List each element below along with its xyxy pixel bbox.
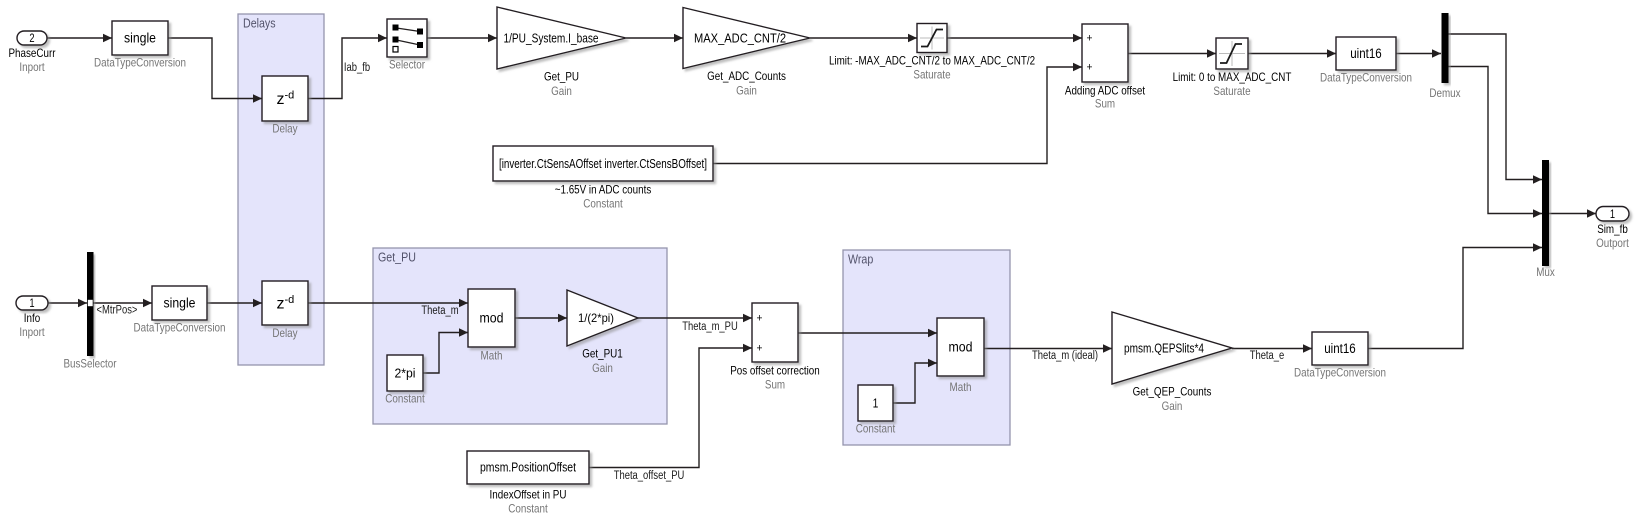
demux Demux	[1429, 13, 1460, 100]
outport 1 Sim_fb	[1596, 207, 1629, 251]
wire DataTypeConversion to Delay	[168, 38, 262, 103]
svg-text:Constant: Constant	[583, 197, 623, 211]
svg-text:+: +	[1087, 62, 1093, 74]
svg-text:DataTypeConversion: DataTypeConversion	[94, 56, 186, 70]
svg-text:uint16: uint16	[1324, 341, 1356, 356]
svg-text:+: +	[1087, 33, 1093, 45]
svg-text:Limit: -MAX_ADC_CNT/2 to MAX_A: Limit: -MAX_ADC_CNT/2 to MAX_ADC_CNT/2	[829, 54, 1035, 68]
inport 2 PhaseCurr	[9, 31, 56, 74]
svg-text:<MtrPos>: <MtrPos>	[97, 305, 138, 317]
wire 2*pi Constant to mod second input	[423, 328, 468, 373]
svg-text:Theta_m_PU: Theta_m_PU	[682, 321, 738, 333]
svg-text:Sim_fb: Sim_fb	[1597, 222, 1628, 236]
svg-text:Get_ADC_Counts: Get_ADC_Counts	[707, 69, 786, 83]
sum block Adding ADC offset	[1065, 24, 1146, 111]
svg-text:single: single	[164, 296, 196, 311]
svg-text:pmsm.QEPSlits*4: pmsm.QEPSlits*4	[1124, 341, 1204, 355]
svg-text:mod: mod	[480, 311, 504, 326]
wire BusSelector to DataTypeConversion1, signal MtrPos	[94, 299, 153, 317]
svg-text:2*pi: 2*pi	[395, 366, 416, 380]
data type conversion block single	[94, 21, 186, 70]
delay block Delay (bottom) z^-d	[262, 281, 308, 340]
svg-text:Theta_e: Theta_e	[1250, 350, 1285, 362]
mux Mux	[1536, 160, 1555, 279]
wire uint16 to Demux	[1396, 49, 1441, 57]
svg-text:BusSelector: BusSelector	[63, 357, 116, 371]
svg-text:Get_QEP_Counts: Get_QEP_Counts	[1133, 385, 1212, 399]
data type conversion uint16 (bottom)	[1294, 332, 1386, 380]
inport 1 Info	[16, 296, 48, 339]
wire uint16_2 to Mux in3	[1368, 243, 1542, 348]
svg-text:Math: Math	[950, 380, 972, 394]
svg-text:single: single	[124, 31, 156, 46]
wire Pos offset correction to Wrap mod	[798, 329, 937, 337]
data type conversion uint16 (top)	[1320, 37, 1412, 85]
svg-text:DataTypeConversion: DataTypeConversion	[1320, 71, 1412, 85]
svg-text:Theta_offset_PU: Theta_offset_PU	[614, 470, 685, 482]
bus selector BusSelector	[63, 252, 116, 371]
area Wrap	[843, 250, 1010, 445]
svg-text:Delay: Delay	[272, 122, 297, 136]
svg-text:Gain: Gain	[736, 84, 757, 98]
svg-text:pmsm.PositionOffset: pmsm.PositionOffset	[480, 460, 576, 475]
svg-text:+: +	[757, 343, 763, 355]
wire Get_PU1 to Pos offset correction, signal Theta_m_PU	[638, 314, 752, 333]
svg-text:Info: Info	[24, 311, 41, 325]
svg-text:Get_PU: Get_PU	[544, 70, 579, 84]
selector block Selector	[387, 19, 427, 72]
svg-text:Constant: Constant	[856, 422, 896, 436]
svg-text:Theta_m (ideal): Theta_m (ideal)	[1032, 350, 1098, 362]
wire Saturate to Sum	[947, 34, 1082, 42]
wire Sum to Saturate1	[1128, 49, 1216, 57]
svg-text:Inport: Inport	[19, 60, 45, 74]
svg-text:Adding ADC offset: Adding ADC offset	[1065, 84, 1146, 98]
svg-text:Gain: Gain	[592, 361, 613, 375]
svg-text:IndexOffset in PU: IndexOffset in PU	[490, 488, 567, 502]
math block mod (Get_PU)	[468, 289, 515, 363]
constant block ~1.65V in ADC counts	[493, 146, 713, 211]
gain Get_ADC_Counts MAX_ADC_CNT/2	[683, 8, 810, 98]
wire Demux out1 to Mux in1	[1449, 34, 1543, 184]
wire Delay to Selector, signal Iab_fb	[308, 34, 387, 99]
svg-text:1: 1	[29, 298, 34, 310]
gain Get_PU 1/PU_System.I_base	[497, 7, 626, 98]
svg-text:uint16: uint16	[1350, 46, 1382, 61]
wire Saturate1 to uint16	[1248, 49, 1336, 57]
saturate block Saturate1	[1173, 38, 1292, 98]
svg-text:Demux: Demux	[1429, 86, 1460, 100]
constant 1	[856, 385, 896, 436]
area Get_PU	[373, 248, 667, 424]
gain Get_PU1 1/(2*pi)	[567, 290, 638, 375]
svg-text:Delay: Delay	[272, 326, 297, 340]
wire Inport1 to BusSelector	[48, 299, 87, 307]
wire IndexOffset constant to Sum, signal Theta_offset_PU	[589, 344, 752, 482]
svg-text:Wrap: Wrap	[848, 252, 873, 267]
svg-text:Limit: 0 to MAX_ADC_CNT: Limit: 0 to MAX_ADC_CNT	[1173, 70, 1292, 84]
svg-text:1: 1	[873, 396, 879, 410]
svg-text:2: 2	[29, 33, 34, 45]
delay block Delay (top) z^-d	[262, 76, 308, 136]
svg-text:Iab_fb: Iab_fb	[344, 62, 370, 74]
svg-text:Theta_m: Theta_m	[421, 305, 458, 317]
svg-text:Delays: Delays	[243, 16, 276, 31]
wire Wrap mod to Get_QEP_Counts, signal Theta_m (ideal)	[984, 344, 1112, 362]
svg-text:Outport: Outport	[1596, 236, 1629, 250]
svg-text:PhaseCurr: PhaseCurr	[9, 46, 56, 60]
svg-text:Mux: Mux	[1536, 265, 1555, 279]
svg-text:[inverter.CtSensAOffset invert: [inverter.CtSensAOffset inverter.CtSensB…	[499, 156, 707, 171]
wire DataTypeConversion1 to Delay1	[207, 299, 262, 307]
svg-text:1/PU_System.I_base: 1/PU_System.I_base	[504, 31, 599, 45]
wire Demux out2 to Mux in2	[1449, 67, 1543, 218]
svg-text:Selector: Selector	[389, 58, 425, 72]
wire Inport2 to DataTypeConversion	[47, 34, 112, 42]
wire Get_QEP_Counts to uint16_2, signal Theta_e	[1232, 344, 1312, 362]
wire mod to Get_PU1 gain	[515, 314, 567, 322]
svg-text:1: 1	[1610, 209, 1615, 221]
svg-text:Pos offset correction: Pos offset correction	[730, 364, 820, 378]
svg-text:+: +	[757, 313, 763, 325]
wire Mux to Outport	[1549, 209, 1596, 217]
svg-text:Sum: Sum	[1095, 97, 1115, 111]
wire Delay1 to mod Math, signal Theta_m	[308, 299, 468, 317]
svg-text:MAX_ADC_CNT/2: MAX_ADC_CNT/2	[694, 31, 786, 45]
sum block Pos offset correction	[730, 303, 820, 392]
svg-text:DataTypeConversion: DataTypeConversion	[134, 321, 226, 335]
svg-text:Constant: Constant	[385, 392, 425, 406]
constant block pmsm.PositionOffset / IndexOffset in PU	[467, 451, 589, 516]
svg-text:Inport: Inport	[19, 325, 45, 339]
wire Get_ADC_Counts to Saturate	[810, 34, 917, 42]
svg-text:1/(2*pi): 1/(2*pi)	[578, 311, 614, 325]
svg-text:Constant: Constant	[508, 502, 548, 516]
wire Get_PU to Get_ADC_Counts	[626, 34, 683, 42]
math block mod (Wrap)	[937, 318, 984, 394]
data type conversion single (bottom)	[134, 286, 226, 335]
svg-text:Math: Math	[481, 349, 503, 363]
saturate block Saturate (top)	[829, 24, 1035, 82]
svg-text:~1.65V in ADC counts: ~1.65V in ADC counts	[555, 183, 652, 197]
wire Constant 1 to Wrap mod second input	[893, 359, 937, 403]
svg-text:Gain: Gain	[551, 84, 572, 98]
svg-text:mod: mod	[949, 340, 973, 355]
constant 2*pi	[385, 355, 425, 406]
area Delays	[238, 14, 324, 365]
svg-text:Saturate: Saturate	[913, 68, 950, 82]
svg-text:Saturate: Saturate	[1213, 84, 1250, 98]
svg-text:DataTypeConversion: DataTypeConversion	[1294, 366, 1386, 380]
wire Constant to Sum second input	[713, 63, 1082, 164]
gain Get_QEP_Counts pmsm.QEPSlits*4	[1112, 312, 1232, 413]
svg-text:Get_PU: Get_PU	[378, 250, 416, 265]
svg-text:Get_PU1: Get_PU1	[582, 347, 623, 361]
svg-text:Gain: Gain	[1162, 399, 1183, 413]
svg-text:Sum: Sum	[765, 378, 785, 392]
wire Selector to Get_PU gain	[427, 34, 497, 42]
